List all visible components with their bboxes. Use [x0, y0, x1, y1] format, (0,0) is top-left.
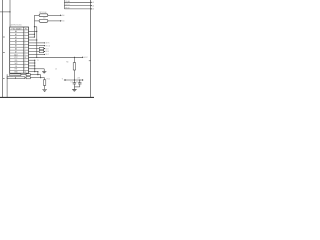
ground G3	[72, 87, 77, 91]
svg-text:A4: A4	[15, 42, 17, 45]
svg-text:1: 1	[24, 31, 25, 33]
svg-text:A5: A5	[15, 45, 17, 48]
resistor L1 box	[26, 77, 30, 79]
svg-text:B0: B0	[62, 21, 64, 23]
wire pin r6	[29, 45, 45, 47]
wire T1 to U1	[21, 74, 26, 76]
junction dot r12-lowbus	[34, 62, 35, 63]
svg-text:A2: A2	[93, 4, 95, 7]
wire r15 drop	[37, 72, 39, 75]
resistor pack RN1 (thin box T1)	[10, 74, 21, 76]
resistor R12 (vertical)	[43, 80, 45, 86]
svg-text:U8 PD71055: U8 PD71055	[10, 25, 22, 27]
junction dot r1-bus	[36, 31, 37, 32]
ground G1 (row 14)	[42, 69, 46, 73]
node dot r6	[44, 45, 45, 46]
svg-text:IRQ0: IRQ0	[65, 8, 69, 10]
svg-text:A3: A3	[93, 8, 95, 11]
frame zone tick left y37	[3, 36, 5, 38]
junction dot bus-vcc wire	[36, 57, 37, 58]
wire cap bottoms	[74, 86, 79, 88]
svg-text:P#: P#	[25, 28, 27, 30]
wire top net 2	[64, 5, 90, 7]
svg-text:SCL0: SCL0	[65, 4, 70, 6]
svg-text:R4: R4	[66, 62, 68, 64]
svg-text:RN1: RN1	[11, 76, 14, 78]
vertical bus lower	[34, 60, 36, 71]
junction dot at (10,11.9)	[9, 11, 10, 12]
junction dot r15 corner	[37, 71, 38, 72]
wire pin r8	[29, 51, 45, 53]
arrow top net 3	[91, 8, 93, 10]
svg-text:3: 3	[24, 37, 25, 39]
junction dot r15 drop	[37, 74, 38, 75]
sheet frame left border	[2, 0, 4, 97]
capacitor C1	[73, 80, 76, 87]
wire bottom right rail	[64, 79, 82, 81]
wire U1 column down	[9, 72, 11, 75]
wire RP1 left	[35, 14, 40, 16]
resistor RP1 (pull-up 1)	[39, 14, 48, 17]
IC U1 outline	[10, 27, 29, 73]
wire pin r1	[29, 30, 37, 32]
junction dot rail C1	[74, 79, 75, 80]
arrow top net 2	[91, 5, 93, 7]
node dot r7	[44, 48, 45, 49]
node dot r5	[44, 42, 45, 43]
wire top entry vertical	[63, 0, 65, 9]
wire corner into R12	[44, 78, 46, 80]
wire pin r9	[29, 53, 45, 55]
resistor U1 box	[26, 74, 30, 76]
series resistor R5 on r7	[39, 47, 43, 49]
junction dot r15-lowbus	[34, 71, 35, 72]
svg-text:A0: A0	[15, 30, 17, 33]
svg-text:A1: A1	[15, 33, 17, 36]
vcc jumper wire	[34, 26, 36, 28]
wire pin r7	[29, 48, 45, 50]
RN2 divider	[15, 77, 17, 79]
svg-text:PIN NAME: PIN NAME	[11, 27, 22, 30]
wire U1 right	[30, 74, 40, 76]
resistor R7	[73, 63, 75, 70]
IC U1 row lines	[10, 30, 29, 70]
sheet frame bottom border	[0, 96, 94, 98]
junction dot r11-lowbus	[34, 60, 35, 61]
svg-text:5: 5	[24, 63, 25, 65]
svg-text:A2: A2	[15, 36, 17, 39]
frame zone tick left y78.7	[3, 78, 5, 80]
capacitor C2	[78, 80, 81, 87]
arrow VCC net	[82, 56, 84, 58]
arrow RP2 net	[60, 20, 62, 22]
svg-text:3: 3	[24, 60, 25, 62]
wire pin r14	[29, 68, 45, 70]
svg-text:40: 40	[24, 57, 26, 59]
wire RN2 left down to frame	[6, 74, 8, 97]
wire U1 corner down	[40, 75, 42, 78]
resistor RP2 (pull-up 2)	[39, 19, 48, 22]
wire pin r4	[29, 39, 37, 41]
frame zone tick left y52.7	[3, 52, 5, 54]
ground G2	[42, 90, 47, 92]
wire pin r3	[29, 36, 35, 38]
arrow RP1 net	[60, 14, 62, 16]
wire pin r12	[29, 62, 35, 64]
svg-text:VCC: VCC	[84, 57, 89, 59]
IC U1 column divider	[23, 27, 25, 73]
svg-text:R12: R12	[47, 78, 50, 80]
wire pin r10 VCC net	[29, 56, 83, 58]
wire VCC branch down	[73, 57, 75, 62]
wire RP2 left	[35, 20, 40, 22]
junction dot r2-busA	[34, 34, 35, 35]
svg-text:HOLD: HOLD	[45, 45, 50, 47]
junction dot r3-busA	[34, 37, 35, 38]
svg-text:A7: A7	[15, 50, 17, 53]
wire T2 to L1	[25, 77, 26, 79]
sheet frame right border	[90, 0, 92, 97]
junction dot vcc-R4	[74, 57, 75, 58]
wire RP2 right	[48, 20, 60, 22]
net labels rows r5-r9	[37, 43, 51, 63]
junction dot U1-L1 join	[40, 77, 41, 78]
arrow rail right	[82, 79, 84, 81]
series resistor R6 on r8	[39, 50, 43, 52]
wire R12 down	[44, 85, 46, 89]
arrow rail left	[64, 79, 66, 81]
IC U1 pin name texts	[14, 30, 19, 73]
svg-text:4: 4	[24, 40, 25, 42]
node dot r9	[44, 54, 45, 55]
wire pin r11	[29, 59, 35, 61]
svg-text:A6: A6	[15, 48, 17, 51]
svg-text:20: 20	[24, 72, 26, 74]
svg-text:8: 8	[24, 51, 25, 53]
wire pin r13	[29, 65, 35, 67]
wire R7 to rail	[73, 70, 75, 80]
arrow top net 1	[91, 1, 93, 3]
svg-text:A0: A0	[62, 14, 64, 17]
svg-text:1: 1	[24, 69, 25, 71]
svg-text:RP1 10K: RP1 10K	[39, 12, 47, 14]
junction dot r4-bus	[36, 39, 37, 40]
svg-text:5: 5	[24, 43, 25, 45]
wire from top edge down to U1	[9, 0, 11, 27]
vertical bus B (VCC)	[36, 27, 38, 58]
wire pin r5	[29, 42, 45, 44]
wire L1 right	[30, 77, 44, 79]
svg-text:A3: A3	[15, 39, 17, 42]
svg-text:INT: INT	[15, 69, 18, 71]
junction dot rail C2	[79, 79, 80, 80]
svg-text:SDA0: SDA0	[65, 0, 70, 3]
node dot r8	[44, 51, 45, 52]
svg-text:6: 6	[24, 66, 25, 68]
resistor pack RN2 (thin box T2)	[7, 77, 25, 79]
wire RP1 right	[48, 14, 60, 16]
svg-text:7: 7	[24, 48, 25, 50]
wire from left edge to node	[0, 11, 10, 13]
wire top net 3	[64, 8, 90, 10]
junction dot r14-lowbus	[34, 68, 35, 69]
svg-text:9: 9	[24, 54, 25, 56]
wire pin r2	[29, 33, 35, 35]
vertical bus A	[34, 15, 36, 37]
IC U1 header text	[11, 27, 27, 30]
frame zone tick right y60.8	[89, 60, 91, 62]
svg-text:6: 6	[24, 46, 25, 48]
svg-text:14: 14	[55, 68, 57, 70]
junction dot vcc jumper corner	[34, 26, 35, 27]
junction dot r13-lowbus	[34, 65, 35, 66]
svg-text:2: 2	[24, 34, 25, 36]
svg-text:A1: A1	[93, 1, 95, 4]
svg-text:C2: C2	[76, 82, 78, 84]
svg-text:C1: C1	[70, 82, 72, 84]
wire pin r15	[29, 71, 38, 73]
IC U1 pin number texts	[24, 31, 26, 73]
wire top net 1	[64, 1, 90, 3]
